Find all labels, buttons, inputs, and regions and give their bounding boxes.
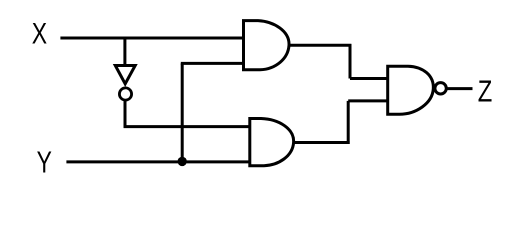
AND gate U3 <box>250 119 294 166</box>
wire U2 output <box>288 44 351 47</box>
inverter U1 triangle <box>115 66 135 84</box>
svg-text:Z: Z <box>478 74 493 109</box>
wire inverter output to AND U3 <box>124 125 251 128</box>
svg-text:Y: Y <box>37 145 52 179</box>
NAND gate U4 body <box>388 66 434 114</box>
wire inverter input drop <box>123 37 126 65</box>
wire U2 output drop <box>349 44 352 79</box>
wire Z output <box>447 87 473 90</box>
wire Y branch to AND U2 <box>181 62 244 65</box>
svg-text:X: X <box>32 17 48 50</box>
wire U3 output <box>293 141 350 144</box>
wire Y input <box>66 160 251 163</box>
wire to NAND U4 bottom input <box>348 99 388 102</box>
AND gate U2 <box>244 21 290 70</box>
wire U3 output rise <box>347 101 350 144</box>
inverter U1 bubble <box>119 88 131 100</box>
wire to NAND U4 top input <box>350 77 389 80</box>
NAND gate U4 bubble <box>435 83 446 94</box>
junction dot on Y <box>178 157 187 166</box>
wire X input <box>60 37 243 40</box>
wire inverter output drop <box>124 101 127 128</box>
wire Y branch vertical <box>181 63 184 162</box>
